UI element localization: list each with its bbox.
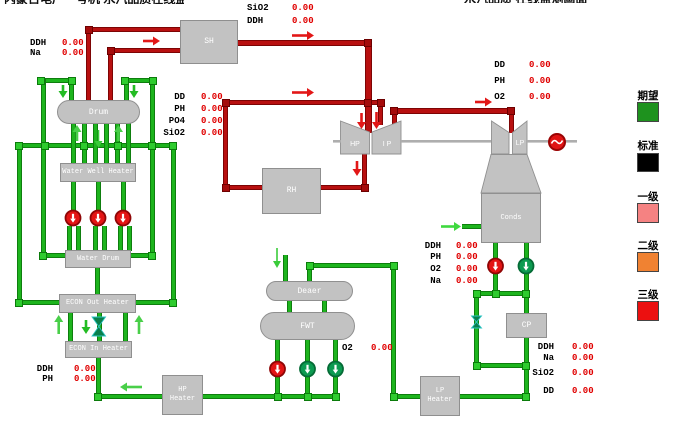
svg-text:HP: HP [350,141,360,148]
svg-text:I P: I P [383,141,392,148]
svg-text:LP: LP [516,140,525,147]
